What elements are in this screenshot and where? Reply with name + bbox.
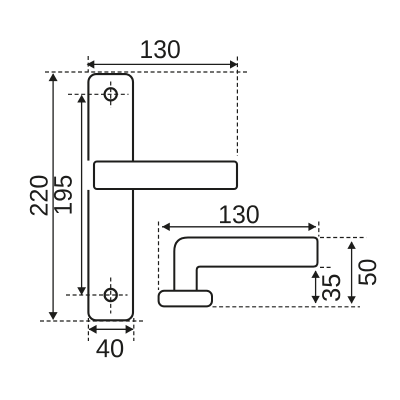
dimension 40 right arrow xyxy=(126,325,134,334)
dimension 50 top extension dashed (bar top) xyxy=(320,237,366,239)
dimension 35 bottom arrow xyxy=(311,296,319,304)
backplate (front view) xyxy=(88,74,133,320)
dimension 130 top left arrow xyxy=(87,60,95,68)
dimension 130 side label xyxy=(220,205,259,223)
handle profile (side view) xyxy=(174,238,317,292)
dimension 35 extension dashed (bar bottom) xyxy=(320,266,332,268)
dimension 220 line xyxy=(52,74,54,319)
dimension 130 (side view) line xyxy=(162,226,316,228)
gap in plate left edge behind lever xyxy=(86,161,92,190)
dimension 40 label xyxy=(96,339,123,357)
dimension 40 left arrow xyxy=(89,325,97,334)
dimension 130 top right arrow xyxy=(230,60,238,68)
dimension 130 side left arrow xyxy=(162,223,170,231)
extension line (dashed) bottom of plate xyxy=(40,320,144,322)
dimension 130 side left extension dashed xyxy=(158,222,160,291)
dimension 50 bottom extension dashed (base bottom) xyxy=(213,306,361,308)
bottom screw hole crosshair vertical xyxy=(110,278,112,314)
dimension 130 top left extension dashed xyxy=(87,56,89,73)
dimension 50 top arrow xyxy=(347,241,355,249)
extension line (dashed) top of plate xyxy=(45,71,248,73)
dimension 130 top right extension dashed xyxy=(236,57,238,157)
dimension 220 top arrow xyxy=(49,73,58,81)
lever handle (front view) xyxy=(94,162,237,190)
dimension 195 line xyxy=(81,96,83,295)
dimension 35 top arrow xyxy=(311,270,319,278)
dimension 130 (top, front view) line xyxy=(88,63,238,65)
dimension 50 line xyxy=(351,242,353,303)
dimension 195 bottom arrow xyxy=(77,287,86,295)
dimension 220 label xyxy=(30,176,48,216)
dimension 195 label xyxy=(54,176,72,214)
dimension 220 bottom arrow xyxy=(49,312,58,320)
rose / base (side view) xyxy=(159,291,212,307)
dimension 130 side right extension dashed xyxy=(318,222,320,237)
bottom screw hole xyxy=(105,289,117,301)
bottom screw hole crosshair horizontal xyxy=(66,294,128,296)
dimension 50 label xyxy=(358,260,376,286)
dimension 40 left extension dashed xyxy=(87,318,89,341)
dimension 130 side right arrow xyxy=(308,223,316,231)
dimension 35 label xyxy=(322,275,340,301)
top screw hole crosshair vertical xyxy=(110,82,112,109)
dimension 130 top label xyxy=(141,40,180,58)
top screw hole crosshair horizontal xyxy=(68,93,129,95)
dimension 40 (bottom) line xyxy=(89,328,133,330)
dimension 40 right extension dashed xyxy=(133,318,135,341)
top screw hole xyxy=(105,88,117,100)
dimension 195 top arrow xyxy=(77,95,86,103)
dimension 50 bottom arrow xyxy=(347,296,355,304)
dimension 35 line xyxy=(315,271,317,303)
